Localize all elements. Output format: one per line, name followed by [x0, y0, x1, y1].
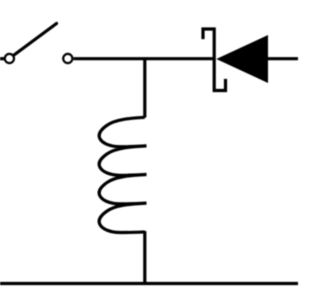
wire	[74, 57, 214, 60]
wire	[0, 282, 298, 285]
wire	[143, 231, 146, 284]
switch SW1	[5, 24, 73, 64]
wire	[268, 57, 298, 60]
wire	[0, 57, 5, 60]
inductor L1	[99, 117, 146, 232]
wire	[143, 59, 146, 118]
diode D1 (Schottky)	[203, 29, 268, 91]
